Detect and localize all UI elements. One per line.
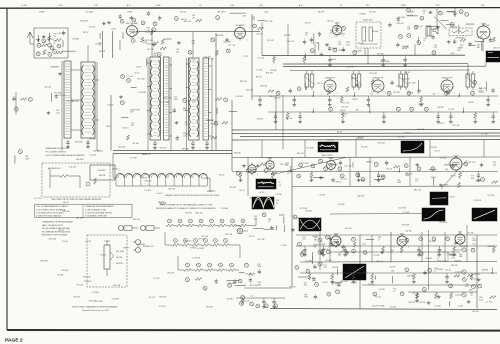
capacitor in video det area [256, 164, 259, 166]
wire vert tuner down 1 [102, 31, 104, 58]
ground in vertical amp row [416, 299, 418, 301]
test point in phono input parts [238, 279, 242, 283]
wire in pix tube parts [475, 40, 485, 42]
tube 17HP4 [477, 26, 490, 39]
resistor right of T3 [222, 121, 228, 124]
svg-text:L6 1W: L6 1W [332, 246, 337, 248]
svg-text:220: 220 [465, 286, 468, 288]
svg-text:R60 10K: R60 10K [406, 173, 413, 175]
svg-text:L54 47: L54 47 [111, 29, 116, 31]
capacitor under transformer 5 [206, 141, 208, 143]
resistor between T1 T2 [126, 135, 129, 140]
oscilloscope waveform sync crossing [299, 218, 321, 231]
wire in hor AFC area [331, 281, 343, 283]
wire vert IF feed 1 [275, 95, 277, 130]
capacitor in sound top row [329, 56, 331, 60]
test point in AGC keyer area [481, 177, 485, 181]
resistor in video IF screen parts [268, 90, 274, 93]
svg-text:C26 100K: C26 100K [436, 269, 444, 271]
wire sound bottom link [244, 287, 292, 289]
svg-text:C60 1.2K: C60 1.2K [167, 272, 175, 274]
resistor in horizontal osc row [309, 273, 311, 274]
svg-text:A-12: A-12 [127, 4, 131, 7]
wire in IF decoupling row [397, 111, 399, 112]
resistor sound row 1 [172, 244, 179, 247]
resistor in hor osc area [454, 275, 460, 278]
svg-text:1 MEG: 1 MEG [127, 12, 133, 14]
wire B+ line right 1 [283, 63, 468, 65]
svg-text:R69 10K: R69 10K [487, 246, 494, 248]
ground in audio det section [437, 25, 439, 27]
transformer IF interstage 1 [305, 74, 309, 87]
wire vert sync 2 [369, 157, 371, 186]
resistor detector row A [208, 224, 215, 227]
wire in IF grid row [277, 95, 279, 96]
resistor in IF grid row [341, 96, 343, 97]
wire sound row connect [165, 244, 172, 246]
ground in vertical out area [381, 251, 383, 253]
resistor in sound IF left parts [258, 27, 264, 30]
resistor in audio divider under [196, 278, 202, 281]
wire in sound top row [354, 55, 356, 56]
wire vert sound drop 2 [287, 24, 289, 56]
svg-text:C21 1W: C21 1W [379, 289, 386, 291]
test point in video IF screen parts [473, 81, 477, 85]
svg-text:.047: .047 [445, 169, 448, 171]
wire vert osc section left [291, 157, 293, 230]
test point in sound out section [295, 265, 299, 269]
resistor right of T3 [211, 136, 217, 139]
svg-text:©Howard W. Sams & Co., Inc. 19: ©Howard W. Sams & Co., Inc. 1953 [82, 309, 109, 312]
capacitor in sound out section [313, 265, 316, 267]
wire bus 2 [232, 132, 500, 135]
svg-text:LINE OUTPUT: LINE OUTPUT [321, 155, 334, 157]
svg-text:L88 680: L88 680 [360, 14, 366, 16]
capacitor in sound top row [404, 56, 406, 60]
svg-text:L73 220: L73 220 [107, 105, 113, 107]
wire diagonal volume [434, 17, 447, 30]
test point between T2 T3 [183, 99, 187, 103]
page border left [6, 8, 8, 330]
svg-text:R62 470K: R62 470K [428, 241, 436, 243]
svg-text:L93 47: L93 47 [472, 279, 477, 281]
capacitor in hor AFC area [337, 283, 340, 285]
test point in IF grid row [276, 91, 280, 95]
test point in hor AFC area [315, 283, 319, 287]
wire in vertical amp row [408, 291, 477, 293]
junction dot in IF decoupling row [463, 111, 465, 113]
svg-text:L89 47: L89 47 [106, 126, 111, 128]
wire in video IF screen parts [442, 84, 444, 90]
svg-text:220: 220 [131, 125, 134, 127]
test point in vertical out area [363, 250, 367, 254]
ground in IF grid row [293, 103, 295, 105]
svg-text:R5 .01: R5 .01 [239, 190, 244, 192]
svg-text:R14 470K: R14 470K [354, 51, 362, 53]
svg-text:R59 220: R59 220 [206, 307, 212, 309]
ground in IF decoupling row [492, 120, 494, 122]
test point right column 2 [462, 270, 466, 274]
svg-text:L80 .005: L80 .005 [69, 167, 76, 169]
wire vert sync 1 [349, 157, 351, 186]
test point in IF grid row [387, 91, 391, 95]
wire in top hanging parts [230, 12, 243, 14]
test point in sync sep area [311, 164, 315, 168]
test point in noise gate area [361, 177, 365, 181]
wire T2 top lead [151, 32, 153, 57]
junction dot in sync sep row [399, 171, 401, 173]
svg-text:L60 470K: L60 470K [112, 298, 120, 300]
wire in audio det section [417, 37, 419, 43]
wire in power supply corner [449, 301, 451, 306]
test point in vertical osc area [352, 237, 356, 241]
svg-text:L22 2.2M: L22 2.2M [344, 165, 352, 167]
capacitor under transformer 2 [87, 140, 89, 142]
capacitor in sync sep row [477, 172, 479, 176]
junction dot in IF decoupling row [369, 111, 371, 113]
svg-text:C30 470K: C30 470K [132, 110, 140, 112]
svg-text:R75 10K: R75 10K [201, 236, 208, 238]
wire mixer plate line [136, 31, 260, 33]
svg-text:6CB6 1ST IF: 6CB6 1ST IF [325, 77, 336, 79]
wire bus 3 [240, 135, 500, 138]
wire yoke right lead [207, 177, 210, 179]
resistor in vertical osc area [336, 241, 339, 246]
wire vertical T1 left [61, 61, 63, 151]
tube 6W4 [397, 236, 407, 246]
svg-text:C55 .01: C55 .01 [445, 269, 451, 271]
svg-text:L22 100K: L22 100K [341, 251, 349, 253]
svg-text:R80 .005: R80 .005 [63, 211, 70, 213]
wire sound row 1 [179, 244, 182, 246]
wire between T1 T2 [130, 87, 136, 89]
svg-text:C92 2.2M: C92 2.2M [265, 21, 273, 23]
svg-text:R11 .01: R11 .01 [101, 255, 107, 257]
test point in tuner input section [36, 52, 40, 56]
oscilloscope waveform sawtooth [343, 264, 366, 280]
svg-text:2: 2 [343, 36, 344, 38]
svg-text:C13 10K: C13 10K [389, 307, 396, 309]
svg-text:R97 1.2K: R97 1.2K [342, 102, 350, 104]
svg-text:C34 .047: C34 .047 [441, 205, 448, 207]
svg-text:RF AGC: RF AGC [98, 169, 106, 172]
wire vert left column [251, 14, 253, 100]
wire in top hanging right [407, 15, 418, 17]
svg-text:R24 220: R24 220 [118, 147, 124, 149]
test point in sound out section [300, 252, 304, 256]
wire in video IF screen parts [486, 82, 488, 91]
resistor detector row A [166, 224, 173, 227]
test point detector row A [199, 219, 203, 223]
svg-text:L57 47: L57 47 [326, 91, 331, 93]
test point in tuner input section [48, 43, 52, 47]
capacitor in IF grid row [329, 96, 331, 100]
ground in sweep row [344, 253, 346, 255]
svg-text:C11 680: C11 680 [57, 275, 63, 277]
svg-text:L57 1.2K: L57 1.2K [228, 45, 236, 47]
svg-text:L1 .001: L1 .001 [281, 245, 287, 247]
wire AGC section bottom [330, 213, 430, 216]
svg-text:CENTERING: CENTERING [455, 38, 465, 40]
test point in IF top interstage [226, 49, 230, 53]
svg-text:• FOR CONVENTIONAL SEE ADJUS: • FOR CONVENTIONAL SEE ADJUSTMENTS [45, 154, 85, 157]
wire in top right controls [440, 20, 448, 22]
svg-text:R70 470K: R70 470K [474, 200, 482, 202]
test point in sync sep area [340, 174, 344, 178]
wire in vertical out area [365, 239, 374, 241]
svg-text:C79 470K: C79 470K [306, 148, 314, 150]
capacitor in IF grid row [293, 96, 295, 100]
transformer T1 coil [81, 62, 95, 138]
svg-text:C89 220: C89 220 [357, 43, 363, 45]
test point sound row 1 [194, 239, 198, 243]
connector interlock [136, 240, 141, 245]
test point in video det area [236, 171, 240, 175]
test point in sync sep area [297, 174, 301, 178]
wire detector row A [184, 225, 188, 227]
test point sound row 1 [174, 239, 178, 243]
test point in vertical out area [419, 252, 423, 256]
svg-text:KEYER: KEYER [99, 175, 106, 177]
resistor sound row 1 [222, 244, 229, 247]
svg-text:L13 1W: L13 1W [319, 195, 325, 197]
svg-text:R8 .01: R8 .01 [220, 175, 225, 177]
svg-text:6K6: 6K6 [458, 231, 461, 233]
wire vert top right 1 [436, 8, 438, 26]
svg-text:L88 2.2M: L88 2.2M [195, 213, 203, 215]
svg-text:R99 .047: R99 .047 [416, 26, 423, 28]
wire sweep row A [296, 234, 497, 236]
wire diagonal sync [271, 157, 346, 175]
capacitor in sync sep area [339, 161, 342, 163]
svg-text:L64 10K: L64 10K [438, 107, 445, 109]
capacitor in top hanging parts [147, 12, 150, 14]
capacitor in top hanging parts [158, 17, 161, 19]
wire vert bus drop 1 [261, 140, 263, 158]
capacitor in IF decoupling row [275, 112, 277, 116]
wire yoke ticks [115, 178, 117, 186]
wire AGC line right [290, 69, 470, 72]
svg-text:L74 100K: L74 100K [92, 292, 100, 294]
svg-text:C73 .01: C73 .01 [396, 86, 402, 88]
svg-text:R59 10K: R59 10K [240, 81, 247, 83]
wire in IF grid row [312, 91, 314, 96]
wire in sync sep row [232, 171, 498, 173]
resistor in sweep row [493, 246, 495, 247]
svg-text:1 MEG: 1 MEG [39, 12, 45, 14]
svg-text:C77 10K: C77 10K [478, 92, 485, 94]
wire in sync sep row [398, 168, 400, 172]
wire IF return 2 [113, 153, 232, 155]
capacitor in sync sep row [378, 172, 380, 176]
wire in sync sep row [290, 166, 292, 172]
wire yoke left lead [113, 177, 116, 179]
svg-text:R32 .01: R32 .01 [327, 20, 333, 22]
capacitor under transformer 1 [67, 140, 69, 142]
svg-text:C76 .01: C76 .01 [62, 241, 68, 243]
wire in sync sep row [432, 171, 434, 172]
svg-text:R90 220: R90 220 [207, 120, 213, 122]
svg-text:R13 680: R13 680 [72, 38, 78, 40]
test point in bottom mid parts [250, 302, 254, 306]
svg-text:C57 47: C57 47 [439, 123, 445, 125]
transformer IF interstage 3 [399, 74, 403, 87]
svg-text:680: 680 [192, 43, 195, 45]
resistor in horizontal osc row [331, 273, 333, 274]
svg-text:R61 .01: R61 .01 [358, 137, 364, 139]
wire B+ line right 2 [283, 65, 486, 67]
resistor in AGC keyer area [492, 181, 498, 184]
test point sound row 2 [186, 263, 190, 267]
test point in noise gate area [381, 175, 385, 179]
test point in sound IF section dense [342, 26, 346, 30]
inductor horizontal yoke winding [116, 173, 207, 178]
svg-text:L4 10K: L4 10K [458, 305, 464, 307]
wire vert sound drop 1 [261, 22, 263, 56]
resistor in sound IF section dense [336, 26, 339, 31]
wire vertical T3 right [211, 58, 213, 151]
svg-text:C90 10K: C90 10K [406, 15, 413, 17]
test point in hor osc area [422, 288, 426, 292]
capacitor in audio det section [388, 24, 391, 26]
wire in AGC keyer area [429, 168, 437, 170]
capacitor in sound IF section dense [342, 48, 345, 50]
svg-text:AC INTERLOCK: AC INTERLOCK [48, 167, 61, 170]
svg-text:C20 .01: C20 .01 [179, 174, 185, 176]
svg-text:.01: .01 [305, 35, 307, 37]
capacitor in sweep row [304, 246, 306, 250]
speaker [433, 27, 438, 35]
wire IF return 1 [113, 150, 232, 152]
svg-text:L16 10K: L16 10K [405, 230, 412, 232]
resistor detector row A [240, 224, 247, 227]
wire vertical T2 left [147, 57, 149, 151]
svg-text:C83 10K: C83 10K [305, 211, 312, 213]
wire in IF decoupling row [268, 111, 498, 113]
tube 6CB6 1ST IF [324, 80, 336, 92]
svg-text:680: 680 [314, 239, 317, 241]
wire vert bus drop 2 [304, 140, 306, 158]
tube 6AU6 [332, 25, 342, 35]
capacitor in video IF screen parts [390, 81, 393, 83]
ground in horizontal osc row [371, 280, 373, 282]
wire vert IF feed 2 [282, 95, 284, 149]
capacitor in horizontal osc row [446, 273, 448, 277]
capacitor in bottom audio row [263, 298, 265, 302]
svg-text:12AU7: 12AU7 [328, 157, 334, 160]
test point sound out 3 [318, 262, 322, 266]
wire in audio divider under [235, 284, 246, 286]
svg-text:R37 2.2M: R37 2.2M [340, 281, 348, 283]
ground in sweep row [453, 253, 455, 255]
resistor sound row 2 [184, 269, 191, 272]
wire detector row A [173, 225, 177, 227]
svg-text:R14 .01: R14 .01 [123, 128, 129, 130]
svg-text:THE COOPERATION OF THE MANUFAC: THE COOPERATION OF THE MANUFACTURER OF T… [160, 204, 213, 207]
svg-text:CHASSIS, DEFLECTION YOKE SHOWN: CHASSIS, DEFLECTION YOKE SHOWN IN CONTRO… [165, 194, 220, 197]
wire in IF grid row [408, 95, 410, 96]
capacitor in sound top row [382, 56, 384, 60]
connector jack right [237, 228, 243, 234]
svg-text:HALF OF DEFLECTION: HALF OF DEFLECTION [42, 224, 63, 227]
svg-text:L71 .047: L71 .047 [153, 278, 160, 280]
test point in vertical osc area [302, 251, 306, 255]
tube 6K6 [455, 234, 465, 244]
svg-text:C82 220: C82 220 [431, 147, 437, 149]
test point detector row A [168, 219, 172, 223]
svg-text:R42 .047: R42 .047 [341, 113, 348, 115]
svg-text:(B+) LINE: (B+) LINE [381, 61, 391, 63]
ground in IF decoupling row [437, 120, 439, 122]
test point in top hanging parts [174, 17, 178, 21]
resistor sound row 2 [217, 269, 224, 272]
wire in sync sep row [339, 171, 341, 172]
test point between T1 T2 [121, 75, 125, 79]
svg-text:R33 1.2K: R33 1.2K [159, 296, 167, 298]
resistor in sound top row [303, 56, 305, 57]
wire in AGC keyer area [432, 177, 434, 185]
dashed box ringing coil [438, 252, 448, 261]
test point in sync sep row [324, 167, 328, 171]
test point in sound out section [325, 235, 329, 239]
resistor in IF decoupling row [287, 112, 289, 113]
wire in RF amplifier section [122, 33, 124, 39]
wire row A right hook [250, 225, 256, 227]
wire yoke baseline [116, 185, 207, 187]
test point in sound IF section dense [333, 48, 337, 52]
wire in sync sep row [418, 171, 420, 172]
svg-text:23-1: 23-1 [366, 5, 370, 7]
svg-text:L76 1W: L76 1W [131, 157, 137, 159]
wire left of T1 [50, 93, 52, 102]
capacitor in sound IF section dense [303, 40, 306, 42]
wire in sync sep area [313, 177, 325, 179]
wire boost line bottom [270, 309, 497, 310]
test point in horiz output corner [472, 285, 476, 289]
svg-text:6CB6 3RD IF: 6CB6 3RD IF [442, 77, 454, 79]
ground in IF decoupling row [299, 120, 301, 122]
tube 6BQ7 RF AMP [127, 26, 138, 37]
capacitor in top hanging right [396, 18, 399, 20]
test point in IF decoupling row [397, 107, 401, 111]
wire vert bus drop 3 [355, 140, 357, 157]
svg-text:C45 1.2K: C45 1.2K [280, 164, 288, 166]
transformer T1 left bar [64, 61, 71, 138]
svg-text:R57 1.2K: R57 1.2K [468, 162, 476, 164]
wire vert sweep 2 [371, 235, 373, 262]
svg-text:L42 470K: L42 470K [197, 248, 205, 250]
test point in top right controls [465, 12, 469, 16]
svg-text:L76 2.2M: L76 2.2M [139, 92, 147, 94]
wire left of T1 [50, 66, 59, 68]
svg-text:C12 220: C12 220 [361, 147, 367, 149]
antenna [27, 32, 33, 44]
capacitor in top right controls [453, 12, 456, 14]
test point in bottom mid parts [256, 304, 260, 308]
svg-text:R71 470K: R71 470K [402, 225, 410, 227]
capacitor in sync sep area [331, 179, 334, 181]
wire vert sync 3 [409, 157, 411, 186]
test point sound row 1 [184, 239, 188, 243]
wire detector row A [194, 225, 198, 227]
test point in AGC left column [28, 98, 32, 102]
svg-text:L8 .001: L8 .001 [374, 255, 380, 257]
svg-text:C59 470K: C59 470K [188, 100, 196, 102]
resistor in video IF screen parts [371, 80, 374, 85]
wire vert tuner down 2 [111, 31, 113, 58]
wire in sound IF left parts [258, 20, 265, 22]
test point sound row 2 [208, 263, 212, 267]
